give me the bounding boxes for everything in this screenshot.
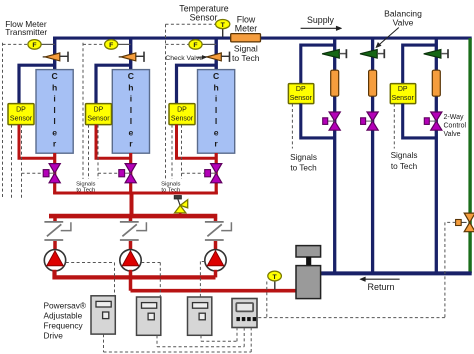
wire chiller 2 inlet elbow to DP sensor — [96, 65, 131, 103]
svg-text:Valve: Valve — [393, 17, 414, 27]
wire DP sensor 2 to chiller outlet (red) — [96, 125, 131, 159]
svg-text:2-Way: 2-Way — [444, 114, 464, 121]
svg-text:to Tech: to Tech — [290, 164, 317, 173]
wire pump 3 discharge — [214, 270, 218, 278]
svg-text:Sensor: Sensor — [171, 115, 194, 122]
svg-text:e: e — [214, 127, 219, 137]
wire dashed control boundary 2 — [82, 43, 84, 179]
check valve 3 — [204, 56, 207, 58]
wire valve 1 to pump — [53, 241, 57, 251]
expansion tank (gray) — [296, 246, 321, 257]
wire dashed control boundary 3 — [165, 24, 167, 179]
valve 1 actuator — [43, 170, 49, 177]
wire load branch 2 riser — [371, 37, 374, 274]
control valve 2 (chiller outlet, 2-way magenta) — [125, 164, 136, 174]
svg-text:Powersav®: Powersav® — [44, 300, 87, 310]
wire chiller 1 supply riser — [53, 37, 56, 71]
svg-text:F: F — [193, 42, 197, 49]
svg-text:Sensor: Sensor — [10, 115, 33, 122]
svg-text:Adjustable: Adjustable — [44, 310, 83, 320]
control valve 1 (2-way magenta, load) — [329, 112, 340, 121]
svg-text:to Tech: to Tech — [232, 53, 260, 63]
svg-text:Transmitter: Transmitter — [5, 27, 47, 37]
svg-text:DP: DP — [398, 86, 408, 93]
svg-text:F: F — [32, 42, 36, 49]
wire chiller 2 outlet drop (red) — [129, 153, 132, 194]
isolation valve 3 — [205, 221, 224, 223]
wire pump 2 discharge to main return (red) — [129, 270, 133, 291]
flow meter FM1 (orange) — [231, 34, 261, 42]
wire dashed drive 1 to controller — [103, 334, 105, 352]
wire load branch 1 riser — [333, 37, 336, 274]
svg-text:DP: DP — [177, 107, 187, 114]
wire dashed pump 3 to drive 3 — [200, 261, 204, 263]
svg-text:l: l — [130, 105, 132, 115]
svg-text:Sensor: Sensor — [392, 95, 415, 102]
wire dashed pump 2 to drive 2 — [141, 262, 160, 264]
svg-text:Control: Control — [444, 123, 467, 130]
svg-text:Signals: Signals — [76, 181, 95, 187]
wire DP tap (load 2) bottom — [403, 104, 437, 138]
svg-text:Valve: Valve — [444, 131, 461, 138]
cooling coil 3 (orange) — [432, 70, 440, 96]
cooling coil 2 (orange) — [369, 70, 377, 96]
wire valve 2 to pump — [129, 241, 133, 251]
frequency drive 1 — [91, 296, 115, 334]
svg-text:C: C — [128, 71, 134, 81]
svg-text:C: C — [213, 71, 219, 81]
frequency drive 2 — [137, 297, 161, 335]
wire dashed to F3 — [166, 43, 189, 45]
wire chiller 1 inlet elbow to DP sensor — [19, 65, 55, 103]
svg-text:Meter: Meter — [235, 24, 258, 34]
svg-text:i: i — [215, 94, 217, 104]
wire chiller 1 outlet drop (red) — [53, 153, 56, 194]
balancing valve 2 (green) — [360, 50, 377, 59]
wire dashed DP1 signal — [11, 125, 13, 198]
valve actuator (load 2) — [361, 118, 366, 125]
svg-text:e: e — [129, 127, 134, 137]
wire chiller 3 supply riser — [214, 37, 217, 71]
valve actuator (load 3) — [424, 118, 429, 125]
wire dashed DP signal (load 1) — [291, 104, 293, 149]
check valve 2 — [119, 56, 122, 58]
svg-text:Signals: Signals — [161, 181, 180, 187]
DP sensor 3 (chiller) — [169, 104, 195, 125]
pump 2 — [120, 250, 141, 271]
svg-text:Supply: Supply — [307, 15, 334, 25]
svg-text:Frequency: Frequency — [44, 320, 84, 330]
DP sensor (load 1) — [288, 84, 313, 104]
svg-text:Return: Return — [367, 282, 394, 292]
flow transmitter F3 (yellow ellipse) — [202, 43, 217, 45]
svg-text:l: l — [215, 105, 217, 115]
svg-text:i: i — [130, 94, 132, 104]
control valve 1 (chiller outlet, 2-way magenta) — [49, 164, 60, 174]
wire dashed to F2 — [83, 43, 105, 45]
wire DP sensor 3 to chiller outlet (red) — [177, 125, 217, 159]
wire collector drop to pump manifold (red) — [130, 193, 134, 216]
isolation valve 2 — [120, 221, 139, 223]
wire dashed to F1 — [3, 43, 28, 45]
svg-text:Sensor: Sensor — [87, 115, 110, 122]
wire pump suction manifold (red) — [49, 214, 217, 219]
wire bypass pipe (green, right edge) — [468, 38, 471, 273]
temperature sensor T1 — [166, 23, 216, 25]
svg-text:Check Valve: Check Valve — [165, 55, 203, 62]
svg-text:to Tech: to Tech — [391, 162, 418, 171]
check valve 1 — [43, 56, 46, 58]
svg-text:h: h — [128, 82, 133, 92]
wire supply header pipe — [53, 37, 472, 40]
control valve 2 (2-way magenta, load) — [367, 112, 378, 121]
svg-text:DP: DP — [296, 86, 306, 93]
svg-text:F: F — [109, 42, 113, 49]
wire dashed T2 signal — [266, 282, 268, 318]
wire return header pipe — [320, 271, 471, 275]
flow transmitter F1 (yellow ellipse) — [41, 43, 55, 45]
svg-text:DP: DP — [94, 107, 104, 114]
DP sensor 1 (chiller) — [8, 104, 34, 125]
wire main red line to decoupler tank — [131, 289, 297, 293]
wire pump 2 suction stub — [129, 218, 133, 222]
wire chiller 3 outlet drop (red) — [215, 153, 218, 194]
svg-text:C: C — [51, 71, 57, 81]
wire dashed DP2 signal — [88, 125, 90, 179]
wire dashed valve 2 actuator signal — [97, 125, 99, 179]
wire dashed valve 1 actuator signal — [21, 125, 23, 198]
wire dashed valve 3 actuator signal — [181, 125, 183, 179]
wire pump 3 suction stub — [214, 218, 218, 222]
svg-text:h: h — [52, 82, 57, 92]
wire DP sensor 1 to chiller outlet (red) — [19, 125, 55, 159]
svg-text:i: i — [53, 94, 55, 104]
wire load branch 3 riser — [435, 37, 438, 274]
wire dashed drive 3 to controller — [200, 335, 202, 341]
svg-text:h: h — [213, 82, 218, 92]
chiller 2 — [112, 70, 149, 154]
valve actuator (load 1) — [323, 118, 328, 125]
control valve 3 (chiller outlet, 2-way magenta) — [211, 164, 222, 174]
bypass control valve (orange, on green pipe) — [464, 213, 474, 222]
isolation valve 1 — [44, 221, 63, 223]
controller (drive 4) — [232, 299, 257, 328]
svg-text:Signals: Signals — [391, 151, 418, 160]
wire dashed control boundary 1 — [2, 43, 4, 198]
svg-text:l: l — [215, 116, 217, 126]
wire pump 1 discharge — [55, 270, 216, 278]
chiller 1 — [36, 70, 73, 154]
wire valve 3 to pump — [214, 241, 218, 251]
wire chiller 3 inlet elbow to DP sensor — [177, 65, 217, 103]
wire DP tap (load 1) top — [301, 45, 335, 84]
svg-text:l: l — [53, 116, 55, 126]
wire dashed DP3 signal — [171, 125, 173, 179]
svg-text:Drive: Drive — [44, 330, 64, 340]
valve 2 actuator — [119, 170, 125, 177]
pump 3 — [205, 250, 226, 271]
wire pump 1 suction stub — [53, 218, 57, 222]
control valve 3 (2-way magenta, load) — [431, 112, 442, 121]
wire dashed pump 1 to drive 1 — [66, 262, 115, 264]
node label return + arrow — [364, 278, 399, 280]
DP sensor 2 (chiller) — [86, 104, 112, 125]
balancing valve 1 (green) — [322, 50, 339, 59]
DP sensor (load 2) — [390, 84, 415, 104]
frequency drive 3 — [188, 297, 212, 335]
temperature sensor T2 (return line) — [274, 281, 276, 290]
relief valve (yellow, on manifold) — [174, 196, 181, 200]
svg-text:l: l — [130, 116, 132, 126]
flow transmitter F2 (yellow ellipse) — [117, 43, 130, 45]
svg-text:Signals: Signals — [290, 153, 317, 162]
svg-text:Sensor: Sensor — [190, 13, 218, 23]
svg-text:e: e — [52, 127, 57, 137]
wire chiller 2 supply riser — [129, 37, 132, 71]
pump 1 — [44, 250, 65, 271]
wire dashed DP signal (load 2) — [393, 104, 395, 149]
wire dashed bypass valve signal — [445, 221, 456, 223]
cooling coil 1 (orange) — [331, 70, 339, 96]
wire dashed drive 2 to controller — [156, 335, 158, 346]
chiller 3 — [198, 70, 235, 154]
wire DP tap (load 1) bottom — [301, 104, 335, 138]
valve 3 actuator — [205, 170, 211, 177]
svg-text:DP: DP — [16, 107, 26, 114]
wire DP tap (load 2) top — [403, 45, 437, 84]
balancing valve 3 (green) — [424, 50, 441, 59]
bypass valve actuator — [456, 220, 462, 226]
wire chiller return collector (red) — [53, 192, 218, 195]
svg-text:l: l — [53, 105, 55, 115]
svg-text:Sensor: Sensor — [290, 95, 313, 102]
